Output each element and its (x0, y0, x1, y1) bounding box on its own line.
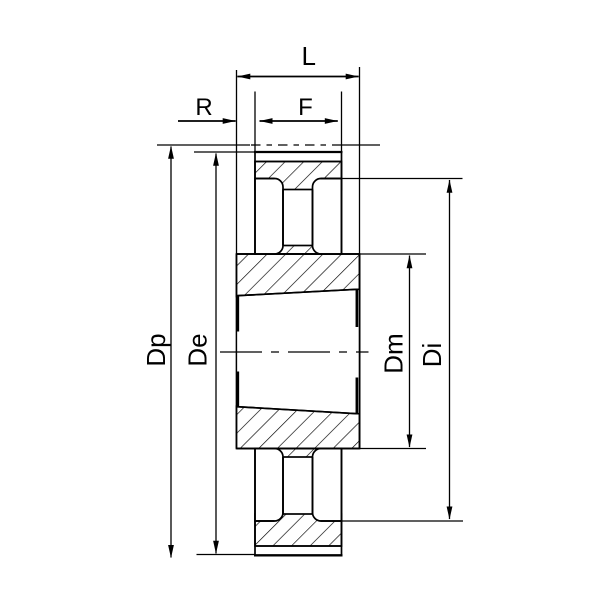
svg-text:L: L (301, 41, 315, 71)
svg-text:De: De (182, 333, 212, 366)
svg-text:F: F (298, 94, 313, 121)
svg-text:Dm: Dm (379, 333, 409, 373)
svg-text:R: R (195, 94, 212, 121)
svg-text:Di: Di (417, 343, 447, 368)
svg-text:Dp: Dp (141, 333, 171, 366)
